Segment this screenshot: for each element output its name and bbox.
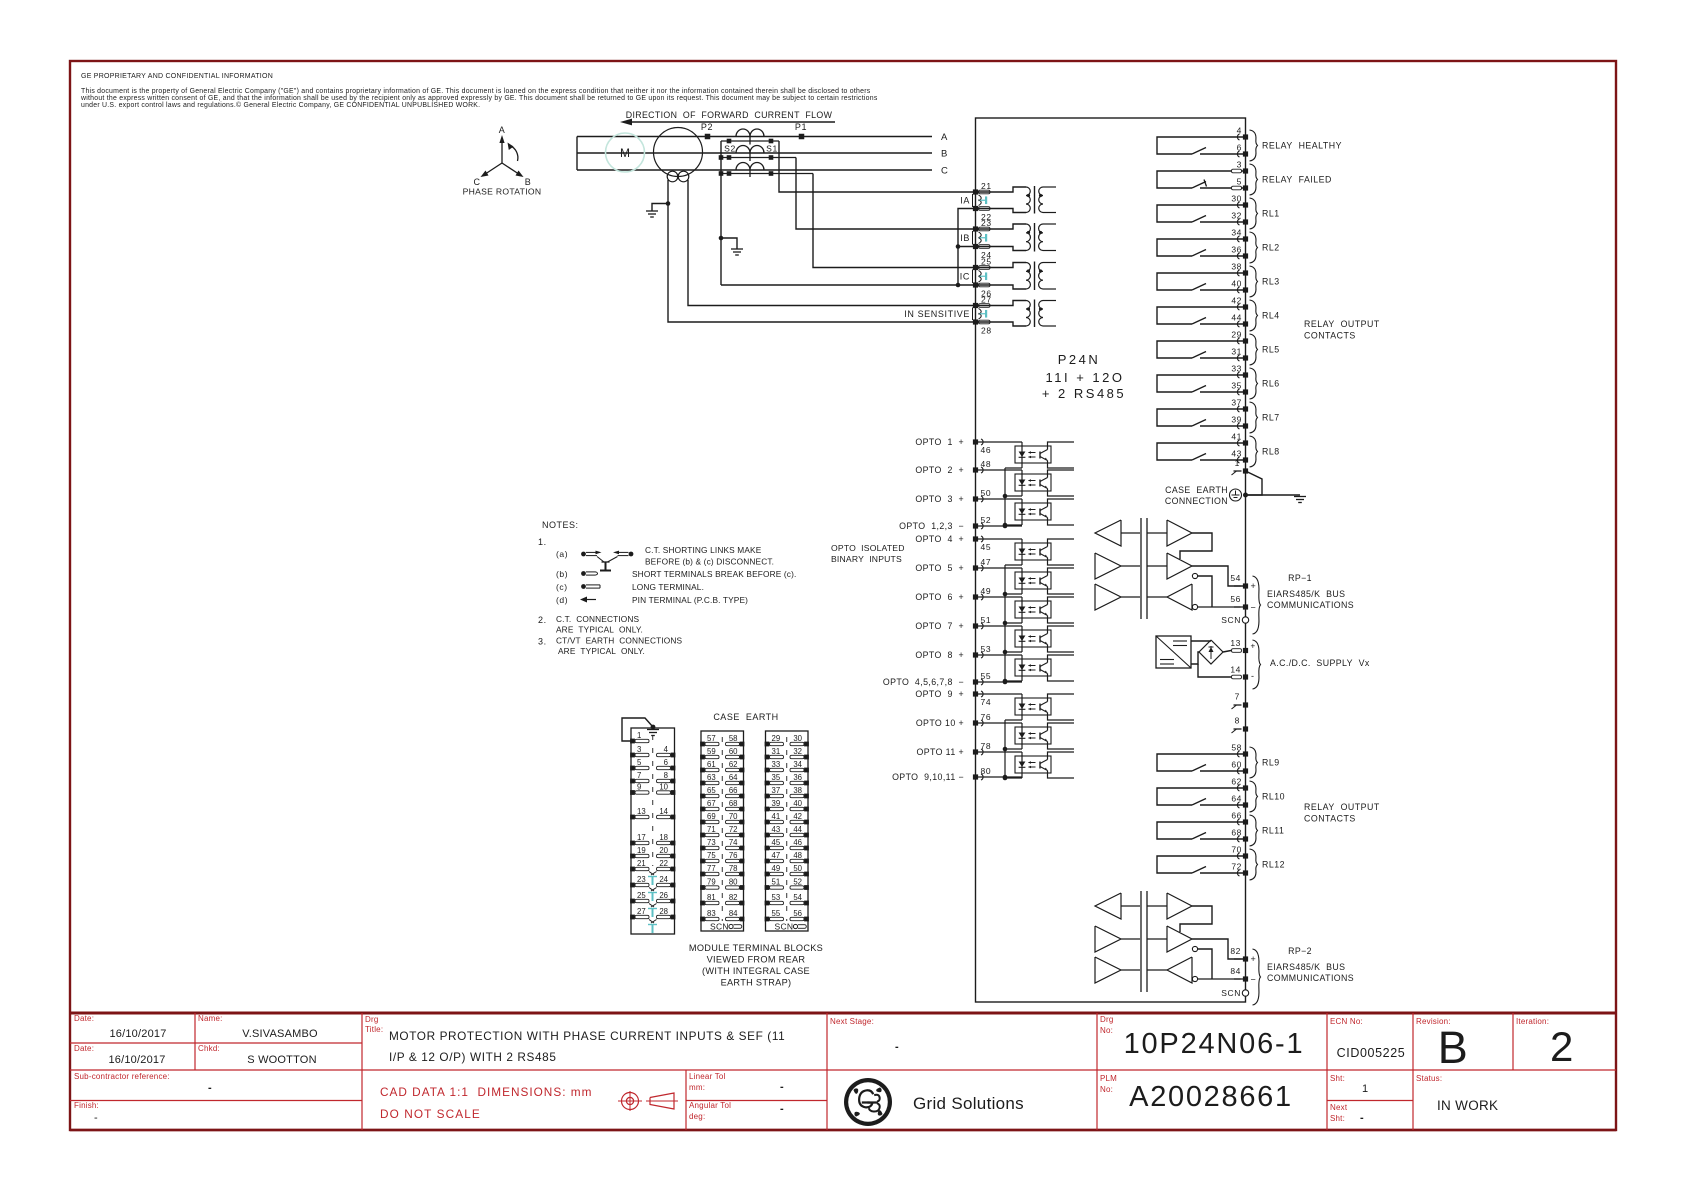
svg-text:−: − bbox=[1251, 975, 1257, 985]
svg-text:ARE TYPICAL ONLY.: ARE TYPICAL ONLY. bbox=[558, 646, 645, 656]
svg-text:56: 56 bbox=[793, 909, 802, 918]
svg-text:IA: IA bbox=[960, 196, 970, 206]
svg-text:68: 68 bbox=[729, 799, 738, 808]
ECN field bbox=[1330, 1017, 1405, 1060]
svg-text:OPTO 4 +: OPTO 4 + bbox=[915, 534, 964, 544]
terminal 74 (OPTO 9 +) bbox=[915, 689, 991, 707]
svg-text:38: 38 bbox=[793, 786, 802, 795]
svg-text:20: 20 bbox=[659, 846, 668, 855]
svg-text:18: 18 bbox=[659, 833, 668, 842]
svg-text:without the express written co: without the express written consent of G… bbox=[80, 95, 878, 102]
CT link IB bbox=[979, 232, 987, 244]
svg-text:10P24N06-1: 10P24N06-1 bbox=[1124, 1028, 1305, 1060]
note 1 bbox=[538, 537, 547, 547]
svg-text:RL2: RL2 bbox=[1262, 243, 1280, 253]
optocoupler OPTO 8 bbox=[976, 655, 1075, 681]
svg-text:53: 53 bbox=[981, 644, 992, 654]
relay contact RL5 (terminals 29/31) bbox=[1157, 330, 1280, 366]
svg-text:4: 4 bbox=[1237, 126, 1242, 136]
svg-text:Date:: Date: bbox=[74, 1044, 94, 1053]
svg-text:53: 53 bbox=[772, 893, 781, 902]
svg-text:49: 49 bbox=[981, 586, 992, 596]
relay contact RL2 (terminals 34/36) bbox=[1157, 228, 1280, 264]
svg-text:deg:: deg: bbox=[689, 1112, 705, 1121]
transformer T-IA bbox=[976, 186, 1057, 214]
svg-text:69: 69 bbox=[707, 812, 716, 821]
svg-text:RL6: RL6 bbox=[1262, 379, 1280, 389]
svg-text:13: 13 bbox=[637, 807, 646, 816]
svg-text:29: 29 bbox=[1231, 330, 1242, 340]
optocoupler OPTO 2 bbox=[976, 470, 1075, 496]
svg-text:58: 58 bbox=[729, 734, 738, 743]
svg-text:4: 4 bbox=[664, 745, 669, 754]
svg-text:16/10/2017: 16/10/2017 bbox=[108, 1054, 165, 1066]
motor M bbox=[606, 133, 645, 172]
terminal 22 bbox=[973, 206, 992, 222]
CT link IC bbox=[979, 271, 987, 283]
wire ring CT left lead to terminal 28 bbox=[666, 180, 976, 322]
svg-text:72: 72 bbox=[1231, 862, 1242, 872]
svg-text:48: 48 bbox=[981, 459, 992, 469]
svg-text:84: 84 bbox=[729, 909, 738, 918]
svg-text:C: C bbox=[473, 177, 480, 187]
relay contact RL4 (terminals 42/44) bbox=[1157, 296, 1280, 332]
relay case outline P24N bbox=[976, 118, 1246, 1002]
svg-text:3: 3 bbox=[1237, 160, 1242, 170]
svg-text:LONG TERMINAL.: LONG TERMINAL. bbox=[632, 582, 704, 592]
svg-text:79: 79 bbox=[707, 878, 716, 887]
svg-text:Next Stage:: Next Stage: bbox=[830, 1017, 874, 1026]
svg-text:50: 50 bbox=[981, 488, 992, 498]
wire RP-1 to terminal 56 bbox=[1198, 606, 1246, 608]
svg-text:No:: No: bbox=[1100, 1085, 1113, 1094]
terminal 56 bbox=[1230, 594, 1256, 613]
wire ring CT right lead to terminal 27 bbox=[688, 180, 976, 306]
title block grid bbox=[70, 1013, 1616, 1130]
svg-text:23: 23 bbox=[981, 218, 992, 228]
svg-text:-: - bbox=[780, 1081, 784, 1093]
terminal block TB2 bbox=[700, 731, 744, 932]
svg-text:Angular Tol: Angular Tol bbox=[689, 1101, 731, 1110]
svg-text:46: 46 bbox=[981, 445, 992, 455]
svg-text:8: 8 bbox=[1235, 716, 1240, 726]
svg-text:31: 31 bbox=[772, 747, 781, 756]
TB1 left terminals (1-27) bbox=[630, 731, 649, 919]
svg-text:-: - bbox=[94, 1112, 98, 1124]
optocoupler OPTO 10 bbox=[976, 723, 1075, 749]
terminal 54 bbox=[1230, 573, 1256, 591]
terminal 13 bbox=[1230, 638, 1255, 653]
terminal 82 bbox=[1230, 946, 1256, 964]
svg-text:P24N: P24N bbox=[1058, 352, 1101, 367]
svg-text:29: 29 bbox=[772, 734, 781, 743]
terminal 1 bbox=[1232, 458, 1249, 475]
svg-text:55: 55 bbox=[981, 671, 992, 681]
CT primary terminal P2 bbox=[701, 122, 713, 139]
CT primary terminal P1 bbox=[795, 122, 807, 139]
svg-text:Sht:: Sht: bbox=[1330, 1114, 1345, 1123]
terminal 27 bbox=[973, 295, 992, 309]
svg-text:77: 77 bbox=[707, 864, 716, 873]
svg-text:1: 1 bbox=[1362, 1083, 1369, 1095]
svg-text:16/10/2017: 16/10/2017 bbox=[109, 1028, 166, 1040]
svg-text:81: 81 bbox=[707, 893, 716, 902]
svg-text:60: 60 bbox=[729, 747, 738, 756]
svg-text:OPTO 2 +: OPTO 2 + bbox=[915, 465, 964, 475]
svg-text:VIEWED FROM REAR: VIEWED FROM REAR bbox=[707, 955, 806, 965]
svg-text:-: - bbox=[1251, 671, 1255, 681]
terminal block TB3 bbox=[765, 731, 809, 932]
terminal 49 (OPTO 6 +) bbox=[915, 586, 991, 602]
svg-text:6: 6 bbox=[1237, 143, 1242, 153]
svg-text:Drg: Drg bbox=[365, 1015, 379, 1024]
svg-text:PLM: PLM bbox=[1100, 1074, 1117, 1083]
svg-text:+: + bbox=[1251, 954, 1257, 964]
svg-text:OPTO 4,5,6,7,8 −: OPTO 4,5,6,7,8 − bbox=[883, 677, 964, 687]
optocoupler OPTO 4 bbox=[976, 539, 1075, 565]
svg-text:58: 58 bbox=[1231, 743, 1242, 753]
relay contact RL6 (terminals 33/35) bbox=[1157, 364, 1280, 400]
svg-text:52: 52 bbox=[793, 878, 802, 887]
terminal 7 bbox=[1232, 692, 1249, 710]
wire rectifier to terminal 13 bbox=[1223, 651, 1234, 653]
terminal 47 (OPTO 5 +) bbox=[915, 557, 991, 573]
svg-text:C: C bbox=[941, 166, 948, 177]
wire opto common bus to terminal bbox=[976, 565, 1023, 684]
GE logo bbox=[844, 1078, 892, 1126]
svg-text:C.T. SHORTING LINKS MAKE: C.T. SHORTING LINKS MAKE bbox=[645, 545, 762, 555]
optocoupler OPTO 9 bbox=[976, 694, 1075, 720]
svg-text:OPTO 1,2,3 −: OPTO 1,2,3 − bbox=[899, 521, 964, 531]
svg-text:82: 82 bbox=[729, 893, 738, 902]
svg-text:24: 24 bbox=[659, 875, 668, 884]
relay contact RL9 (terminals 58/60) bbox=[1157, 743, 1280, 779]
svg-text:47: 47 bbox=[772, 851, 781, 860]
svg-text:66: 66 bbox=[729, 786, 738, 795]
svg-text:IC: IC bbox=[960, 272, 970, 282]
proprietary note body bbox=[80, 88, 878, 109]
svg-text:-: - bbox=[208, 1082, 212, 1094]
svg-text:MODULE TERMINAL BLOCKS: MODULE TERMINAL BLOCKS bbox=[689, 943, 823, 953]
svg-text:(b): (b) bbox=[556, 569, 568, 579]
svg-text:under U.S. export control laws: under U.S. export control laws and regul… bbox=[81, 101, 480, 109]
svg-text:83: 83 bbox=[707, 909, 716, 918]
svg-text:80: 80 bbox=[981, 766, 992, 776]
svg-text:ECN No:: ECN No: bbox=[1330, 1017, 1363, 1026]
Next Sht field bbox=[1330, 1103, 1364, 1124]
note (d) bbox=[556, 595, 748, 605]
svg-text:39: 39 bbox=[772, 799, 781, 808]
PLM field bbox=[1100, 1074, 1117, 1094]
svg-text:NOTES:: NOTES: bbox=[542, 520, 579, 530]
wire PSU to terminal 14 bbox=[1198, 664, 1234, 677]
terminal 84 bbox=[1230, 966, 1256, 985]
svg-text:84: 84 bbox=[1230, 966, 1241, 976]
svg-text:57: 57 bbox=[707, 734, 716, 743]
svg-text:Chkd:: Chkd: bbox=[198, 1044, 220, 1053]
svg-text:Finish:: Finish: bbox=[74, 1101, 99, 1110]
svg-text:3.: 3. bbox=[538, 637, 547, 647]
svg-text:14: 14 bbox=[1230, 665, 1241, 675]
svg-text:SCN: SCN bbox=[710, 922, 729, 932]
svg-text:ARE TYPICAL ONLY.: ARE TYPICAL ONLY. bbox=[556, 625, 643, 635]
CT link IA bbox=[979, 195, 987, 206]
svg-text:68: 68 bbox=[1231, 828, 1242, 838]
svg-text:(d): (d) bbox=[556, 595, 568, 605]
power supply unit bbox=[1156, 636, 1191, 668]
svg-text:P2: P2 bbox=[701, 122, 713, 132]
optocoupler OPTO 5 bbox=[976, 568, 1075, 594]
svg-text:PIN TERMINAL (P.C.B. TYPE): PIN TERMINAL (P.C.B. TYPE) bbox=[632, 595, 748, 605]
label AC/DC supply bbox=[1253, 640, 1370, 689]
label relay output contacts (lower) bbox=[1304, 802, 1380, 824]
svg-text:DO NOT SCALE: DO NOT SCALE bbox=[380, 1107, 481, 1121]
wire return bus terminals 22-24-26 bbox=[956, 209, 976, 286]
terminal 46 (OPTO 1 +) bbox=[915, 437, 991, 455]
input label IN SENSITIVE bbox=[904, 308, 972, 321]
title block left fields bbox=[74, 1014, 383, 1124]
node label C bbox=[941, 166, 948, 177]
svg-text:5: 5 bbox=[637, 758, 642, 767]
svg-text:Iteration:: Iteration: bbox=[1516, 1017, 1549, 1026]
terminal 45 (OPTO 4 +) bbox=[915, 534, 991, 552]
svg-text:78: 78 bbox=[729, 864, 738, 873]
drg no field bbox=[1100, 1015, 1114, 1035]
terminal 51 (OPTO 7 +) bbox=[915, 615, 991, 631]
note (a) CT shorting link symbol bbox=[556, 549, 633, 571]
ground (case earth strap) bbox=[622, 718, 659, 741]
svg-text:IB: IB bbox=[960, 233, 970, 243]
svg-text:OPTO 8 +: OPTO 8 + bbox=[915, 650, 964, 660]
wire phase C bbox=[577, 169, 932, 171]
svg-text:67: 67 bbox=[707, 799, 716, 808]
transformer T-IB bbox=[976, 223, 1057, 252]
relay contact RELAY (terminals 4/6) bbox=[1157, 126, 1342, 162]
svg-text:OPTO 10 +: OPTO 10 + bbox=[916, 718, 964, 728]
svg-text:−: − bbox=[1251, 603, 1257, 613]
svg-text:2: 2 bbox=[1550, 1023, 1574, 1070]
svg-text:78: 78 bbox=[981, 741, 992, 751]
relay contact RL3 (terminals 38/40) bbox=[1157, 262, 1280, 298]
svg-text:9: 9 bbox=[637, 783, 641, 792]
svg-text:+ 2 RS485: + 2 RS485 bbox=[1042, 386, 1126, 401]
svg-text:61: 61 bbox=[707, 760, 716, 769]
svg-text:RL10: RL10 bbox=[1262, 792, 1285, 802]
CT phase C bbox=[719, 163, 813, 177]
relay contact RELAY (terminals 3/5) bbox=[1157, 160, 1332, 196]
CT link IN bbox=[979, 309, 987, 320]
projection symbol bbox=[618, 1091, 678, 1111]
svg-text:44: 44 bbox=[793, 825, 802, 834]
node label A bbox=[941, 132, 948, 143]
svg-text:RL12: RL12 bbox=[1262, 860, 1285, 870]
svg-text:27: 27 bbox=[981, 295, 992, 305]
svg-text:CASE EARTH: CASE EARTH bbox=[1165, 485, 1228, 495]
svg-text:64: 64 bbox=[729, 773, 738, 782]
svg-text:21: 21 bbox=[637, 859, 646, 868]
svg-text:CONNECTION: CONNECTION bbox=[1165, 496, 1228, 506]
svg-text:50: 50 bbox=[793, 864, 802, 873]
svg-text:10: 10 bbox=[659, 783, 668, 792]
svg-text:CAD DATA 1:1 DIMENSIONS: mm: CAD DATA 1:1 DIMENSIONS: mm bbox=[380, 1085, 592, 1099]
svg-text:B: B bbox=[941, 149, 948, 160]
svg-text:RELAY OUTPUT: RELAY OUTPUT bbox=[1304, 319, 1380, 329]
svg-text:39: 39 bbox=[1231, 415, 1242, 425]
svg-text:74: 74 bbox=[729, 838, 738, 847]
wire phase A bbox=[577, 136, 932, 138]
svg-text:S WOOTTON: S WOOTTON bbox=[247, 1054, 316, 1066]
svg-text:OPTO 6 +: OPTO 6 + bbox=[915, 592, 964, 602]
svg-text:M: M bbox=[620, 146, 630, 160]
svg-text:40: 40 bbox=[793, 799, 802, 808]
svg-text:7: 7 bbox=[1235, 692, 1240, 702]
case earth connection bbox=[1165, 471, 1262, 506]
terminal 78 (OPTO 11 +) bbox=[916, 741, 991, 757]
svg-text:74: 74 bbox=[981, 697, 992, 707]
wire CT-B S1 to terminal 23 bbox=[796, 158, 976, 230]
svg-text:RELAY FAILED: RELAY FAILED bbox=[1262, 175, 1332, 185]
ground (CT earth) bbox=[721, 238, 743, 255]
svg-text:OPTO 11 +: OPTO 11 + bbox=[916, 747, 964, 757]
terminal 53 (OPTO 8 +) bbox=[915, 644, 991, 660]
svg-text:1: 1 bbox=[637, 731, 641, 740]
svg-text:3: 3 bbox=[637, 745, 641, 754]
next stage field bbox=[830, 1017, 899, 1053]
wire PSU to rectifier bbox=[1191, 641, 1211, 664]
svg-text:V.SIVASAMBO: V.SIVASAMBO bbox=[242, 1028, 318, 1040]
drawing title bbox=[389, 1029, 785, 1064]
RS485 interface RP-2 isolators bbox=[1095, 891, 1246, 992]
label case earth bbox=[713, 712, 778, 722]
svg-text:38: 38 bbox=[1231, 262, 1242, 272]
svg-text:6: 6 bbox=[664, 758, 668, 767]
svg-text:This document is the property: This document is the property of General… bbox=[81, 88, 871, 95]
svg-text:-: - bbox=[895, 1041, 899, 1053]
svg-text:36: 36 bbox=[793, 773, 802, 782]
svg-text:23: 23 bbox=[637, 875, 646, 884]
svg-text:IN WORK: IN WORK bbox=[1437, 1098, 1498, 1113]
svg-text:CID005225: CID005225 bbox=[1337, 1046, 1406, 1060]
svg-text:28: 28 bbox=[981, 326, 992, 336]
svg-text:54: 54 bbox=[793, 893, 802, 902]
svg-text:GE PROPRIETARY AND CONFIDENTIA: GE PROPRIETARY AND CONFIDENTIAL INFORMAT… bbox=[81, 73, 273, 80]
svg-text:Title:: Title: bbox=[365, 1025, 383, 1034]
input label IA bbox=[960, 194, 972, 207]
svg-text:RL9: RL9 bbox=[1262, 758, 1280, 768]
terminal 21 bbox=[973, 181, 992, 195]
svg-text:PHASE ROTATION: PHASE ROTATION bbox=[463, 187, 542, 197]
svg-text:EIARS485/K BUS: EIARS485/K BUS bbox=[1267, 589, 1345, 599]
svg-text:35: 35 bbox=[772, 773, 781, 782]
svg-text:Next: Next bbox=[1330, 1103, 1348, 1112]
svg-text:SCN: SCN bbox=[775, 922, 794, 932]
input label IC bbox=[960, 270, 973, 284]
input label IB bbox=[960, 231, 972, 245]
svg-text:76: 76 bbox=[729, 851, 738, 860]
svg-text:55: 55 bbox=[772, 909, 781, 918]
svg-text:RP−1: RP−1 bbox=[1288, 573, 1312, 583]
relay contact RL10 (terminals 62/64) bbox=[1157, 777, 1285, 813]
wire opto common bus to terminal bbox=[976, 720, 1023, 780]
svg-text:RL4: RL4 bbox=[1262, 311, 1280, 321]
svg-text:41: 41 bbox=[772, 812, 781, 821]
svg-text:34: 34 bbox=[1231, 228, 1242, 238]
note 3 bbox=[538, 636, 683, 657]
svg-text:28: 28 bbox=[659, 907, 668, 916]
svg-text:37: 37 bbox=[772, 786, 781, 795]
CAD note bbox=[380, 1085, 592, 1121]
svg-text:CONTACTS: CONTACTS bbox=[1304, 331, 1356, 341]
svg-text:RP−2: RP−2 bbox=[1288, 946, 1312, 956]
relay contact RL1 (terminals 30/32) bbox=[1157, 194, 1280, 230]
svg-text:A: A bbox=[499, 125, 506, 135]
svg-text:-: - bbox=[780, 1103, 784, 1115]
svg-text:25: 25 bbox=[637, 891, 646, 900]
svg-text:RL8: RL8 bbox=[1262, 447, 1280, 457]
svg-text:49: 49 bbox=[772, 864, 781, 873]
svg-text:34: 34 bbox=[793, 760, 802, 769]
terminal 14 bbox=[1230, 665, 1254, 682]
svg-text:B: B bbox=[1438, 1022, 1469, 1073]
svg-text:A20028661: A20028661 bbox=[1129, 1081, 1293, 1113]
svg-text:22: 22 bbox=[659, 859, 668, 868]
svg-text:37: 37 bbox=[1231, 398, 1242, 408]
svg-text:Sub-contractor reference:: Sub-contractor reference: bbox=[74, 1072, 170, 1081]
svg-text:A.C./D.C. SUPPLY Vx: A.C./D.C. SUPPLY Vx bbox=[1270, 658, 1370, 668]
svg-text:SCN: SCN bbox=[1221, 988, 1241, 998]
ground (ring CT earth) bbox=[646, 204, 668, 218]
svg-text:8: 8 bbox=[664, 771, 668, 780]
svg-text:DIRECTION OF FORWARD CURREN: DIRECTION OF FORWARD CURRENT FLOW bbox=[626, 110, 833, 120]
svg-text:2.: 2. bbox=[538, 615, 547, 625]
svg-text:42: 42 bbox=[1231, 296, 1242, 306]
svg-text:66: 66 bbox=[1231, 811, 1242, 821]
svg-text:14: 14 bbox=[659, 807, 668, 816]
svg-text:45: 45 bbox=[772, 838, 781, 847]
svg-text:EIARS485/K BUS: EIARS485/K BUS bbox=[1267, 962, 1345, 972]
svg-text:EARTH STRAP): EARTH STRAP) bbox=[721, 978, 792, 988]
svg-text:70: 70 bbox=[729, 812, 738, 821]
svg-text:44: 44 bbox=[1231, 313, 1242, 323]
svg-text:Sht:: Sht: bbox=[1330, 1074, 1345, 1083]
direction arrow bbox=[620, 119, 835, 126]
svg-text:82: 82 bbox=[1230, 946, 1241, 956]
svg-text:OPTO 5 +: OPTO 5 + bbox=[915, 563, 964, 573]
svg-text:36: 36 bbox=[1231, 245, 1242, 255]
svg-text:OPTO 3 +: OPTO 3 + bbox=[915, 494, 964, 504]
svg-text:48: 48 bbox=[793, 851, 802, 860]
direction of forward current flow label bbox=[626, 110, 833, 120]
optocoupler OPTO 1 bbox=[976, 442, 1075, 468]
optocoupler OPTO 11 bbox=[976, 752, 1075, 778]
svg-text:RELAY HEALTHY: RELAY HEALTHY bbox=[1262, 141, 1342, 151]
svg-text:+: + bbox=[1251, 642, 1256, 651]
transformer T-IC bbox=[976, 262, 1057, 291]
svg-text:32: 32 bbox=[793, 747, 802, 756]
svg-text:(c): (c) bbox=[556, 582, 568, 592]
svg-text:17: 17 bbox=[637, 833, 646, 842]
relay contact RL12 (terminals 70/72) bbox=[1157, 845, 1285, 881]
svg-text:(WITH INTEGRAL CASE: (WITH INTEGRAL CASE bbox=[702, 966, 810, 976]
svg-text:Grid Solutions: Grid Solutions bbox=[913, 1094, 1024, 1113]
svg-text:62: 62 bbox=[1231, 777, 1242, 787]
svg-text:I/P & 12 O/P) WITH 2 RS485: I/P & 12 O/P) WITH 2 RS485 bbox=[389, 1050, 557, 1064]
svg-text:B: B bbox=[525, 177, 532, 187]
svg-text:32: 32 bbox=[1231, 211, 1242, 221]
node label B bbox=[941, 149, 948, 160]
label S2 bbox=[724, 144, 736, 154]
relay contact RL7 (terminals 37/39) bbox=[1157, 398, 1280, 434]
